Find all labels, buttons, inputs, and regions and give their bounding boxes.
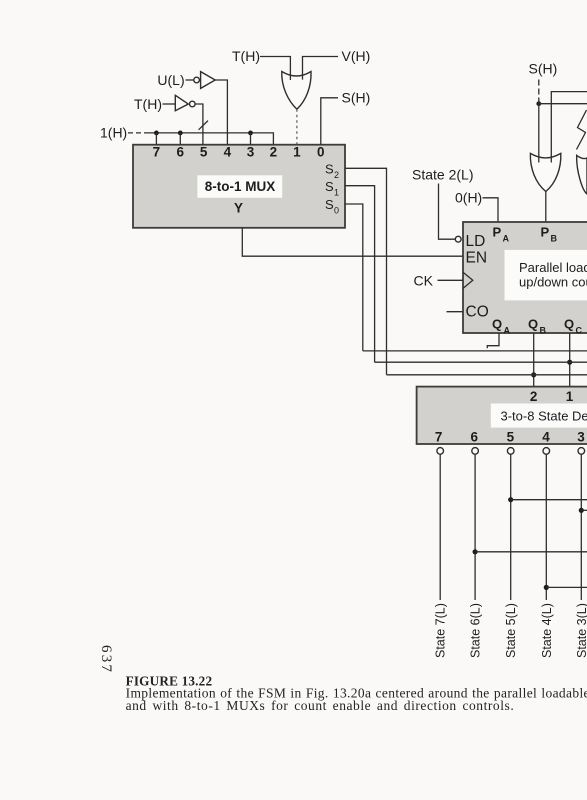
wire state4 branch [546, 586, 587, 588]
svg-text:5: 5 [200, 145, 208, 160]
label State 3(L) [575, 603, 587, 658]
label State 5(L) [504, 603, 518, 658]
svg-text:P: P [493, 225, 502, 240]
wire State 2(L) to LD [439, 184, 455, 240]
wire 0(H) to PA [483, 198, 499, 222]
counter clock wedge [463, 272, 473, 288]
svg-text:5: 5 [507, 430, 515, 445]
svg-text:8-to-1 MUX: 8-to-1 MUX [205, 179, 276, 194]
svg-text:0: 0 [334, 205, 339, 215]
counter LD bubble [455, 236, 461, 242]
svg-text:3: 3 [247, 145, 255, 160]
node S(H) junction [536, 101, 541, 106]
svg-text:S: S [325, 161, 334, 176]
node QC line B junction [567, 360, 572, 365]
label U(L) buffer input [157, 72, 184, 88]
crossed input wires of clipped gate U6 [577, 110, 587, 150]
node state4 branch junction [544, 585, 549, 590]
svg-text:4: 4 [224, 145, 232, 160]
svg-text:6: 6 [470, 430, 478, 445]
svg-text:T(H): T(H) [232, 48, 260, 64]
svg-text:LD: LD [466, 233, 486, 250]
wire CK [438, 279, 464, 281]
or-gate U6 clipped [577, 155, 587, 194]
svg-text:State 6(L): State 6(L) [469, 603, 483, 658]
svg-text:2: 2 [334, 170, 339, 180]
wire QA elbow [487, 333, 499, 348]
wire CO stub [447, 311, 464, 313]
node state6 branch junction [473, 549, 478, 554]
svg-text:4: 4 [542, 430, 550, 445]
wire S(H) to pin0 [321, 98, 338, 145]
or-gate U5 [530, 153, 560, 191]
MUX select labels S2 S1 S0 [325, 161, 339, 215]
svg-text:U(L): U(L) [157, 72, 184, 88]
wire S0 select [345, 204, 363, 351]
label CO [466, 303, 489, 320]
label State 2(L) [412, 166, 473, 182]
svg-text:S: S [325, 197, 334, 212]
decoder input pin 1 [566, 389, 574, 404]
svg-text:A: A [504, 325, 511, 335]
decoder input pin 2 [530, 389, 538, 404]
wire Y output to EN [242, 228, 463, 256]
svg-text:P: P [541, 225, 550, 240]
svg-text:CK: CK [414, 273, 434, 289]
decoder U8 body [417, 387, 587, 444]
wire S(H) junction to or-gate U5 [538, 100, 540, 163]
svg-text:CO: CO [466, 303, 489, 320]
node pin6 junction [178, 131, 183, 145]
page number 637 [98, 645, 114, 674]
wire state7 [439, 454, 441, 600]
caption title FIGURE 13.22 [126, 673, 213, 688]
wire state4 [545, 454, 547, 600]
counter U7 body [463, 222, 587, 333]
svg-text:C: C [576, 325, 583, 335]
MUX pin numbers 7..0 [153, 145, 325, 160]
label PB [541, 225, 558, 244]
decoder output numbers 7..3 [435, 430, 585, 445]
svg-text:Q: Q [564, 317, 574, 332]
wire QB to decoder [533, 333, 535, 387]
label CK [414, 273, 434, 289]
label LD [466, 233, 486, 250]
wire state5 [510, 454, 512, 600]
wire or-gate U4 output to pin1 [296, 109, 298, 145]
wire QC to decoder [569, 333, 571, 387]
wire S(H) branch right [539, 103, 587, 105]
label PA [493, 225, 510, 244]
svg-text:3-to-8 State Decoder: 3-to-8 State Decoder [501, 408, 587, 423]
buffer U3 U(L) with input bubble [186, 72, 216, 89]
wire bus line B [375, 361, 587, 363]
wire 1(H) bus [148, 133, 273, 145]
svg-text:Y: Y [234, 201, 243, 216]
svg-text:1: 1 [293, 145, 301, 160]
svg-text:EN: EN [466, 249, 488, 266]
label T(H) or-gate input [232, 48, 260, 64]
label QC [564, 317, 583, 336]
wire state6 branch [475, 551, 587, 553]
node pin3 junction [248, 131, 253, 145]
wire V(H) to or-gate [303, 57, 339, 80]
svg-text:State 2(L): State 2(L) [412, 166, 473, 182]
node pin7 junction [154, 131, 159, 145]
crossing slash on pin5 wire [199, 121, 208, 130]
svg-text:637: 637 [98, 645, 114, 674]
or-gate U4 [282, 72, 311, 110]
wire or-gate U5 output to PB [545, 192, 547, 223]
MUX output label Y [234, 201, 243, 216]
wire T(H) to or-gate [260, 57, 290, 81]
svg-text:2: 2 [530, 389, 538, 404]
svg-text:3: 3 [577, 430, 585, 445]
node state5 branch junction [508, 497, 513, 502]
caption line 3 [126, 698, 515, 713]
wire U(L) buffer to pin4 [215, 80, 227, 145]
wire S2 select [345, 168, 387, 374]
svg-text:Parallel loadable: Parallel loadable [519, 260, 587, 275]
svg-text:0: 0 [317, 145, 325, 160]
label S(H) counter [529, 60, 558, 76]
caption line 2 [126, 686, 587, 701]
decoder output bubbles [437, 448, 585, 455]
svg-text:State 4(L): State 4(L) [540, 603, 554, 658]
wire bus line C [387, 374, 587, 376]
svg-text:0(H): 0(H) [455, 190, 482, 206]
label 1(H) [100, 125, 127, 141]
svg-text:A: A [503, 233, 510, 243]
label V(H) or-gate input [342, 48, 371, 64]
svg-text:V(H): V(H) [342, 48, 371, 64]
svg-text:1: 1 [334, 187, 339, 197]
wire 1(H) bus dashed lead [128, 132, 148, 134]
label 0(H) [455, 190, 482, 206]
svg-text:T(H): T(H) [134, 96, 162, 112]
wire state3 [580, 454, 582, 600]
svg-text:B: B [540, 325, 547, 335]
svg-text:State 3(L): State 3(L) [575, 603, 587, 658]
label QA [492, 317, 511, 336]
label T(H) inverter input [134, 96, 162, 112]
svg-text:2: 2 [270, 145, 278, 160]
node state3 branch junction [579, 508, 584, 513]
label State 6(L) [469, 603, 483, 658]
svg-text:6: 6 [177, 145, 185, 160]
svg-text:and with 8-to-1 MUXs for count: and with 8-to-1 MUXs for count enable an… [126, 698, 515, 713]
svg-text:Q: Q [492, 317, 502, 332]
wire right feed to or-gate U5 [551, 92, 587, 163]
inverter U2 T(H) [163, 95, 196, 110]
svg-text:1: 1 [566, 389, 574, 404]
svg-text:up/down counter: up/down counter [519, 275, 587, 290]
label State 7(L) [434, 603, 448, 658]
label EN [466, 249, 488, 266]
wire state3 branch [581, 509, 587, 511]
svg-text:State 7(L): State 7(L) [434, 603, 448, 658]
label S(H) mux [342, 90, 371, 106]
wire T(H) inverter to pin5 [195, 104, 203, 145]
label State 4(L) [540, 603, 554, 658]
node QB line C junction [531, 372, 536, 377]
svg-text:S(H): S(H) [342, 90, 371, 106]
svg-text:S: S [325, 179, 334, 194]
wire state5 branch [511, 499, 587, 501]
svg-text:S(H): S(H) [529, 60, 558, 76]
wire S1 select [345, 186, 375, 363]
wire state6 [474, 454, 476, 600]
svg-text:Q: Q [528, 317, 538, 332]
svg-text:7: 7 [153, 145, 161, 160]
svg-text:7: 7 [435, 430, 443, 445]
wire bus line A [363, 350, 587, 352]
wire S(H) down lead [538, 80, 540, 101]
svg-text:B: B [551, 233, 558, 243]
svg-text:State 5(L): State 5(L) [504, 603, 518, 658]
svg-text:1(H): 1(H) [100, 125, 127, 141]
label QB [528, 317, 547, 336]
8-to-1 MUX U1 body [133, 145, 345, 228]
